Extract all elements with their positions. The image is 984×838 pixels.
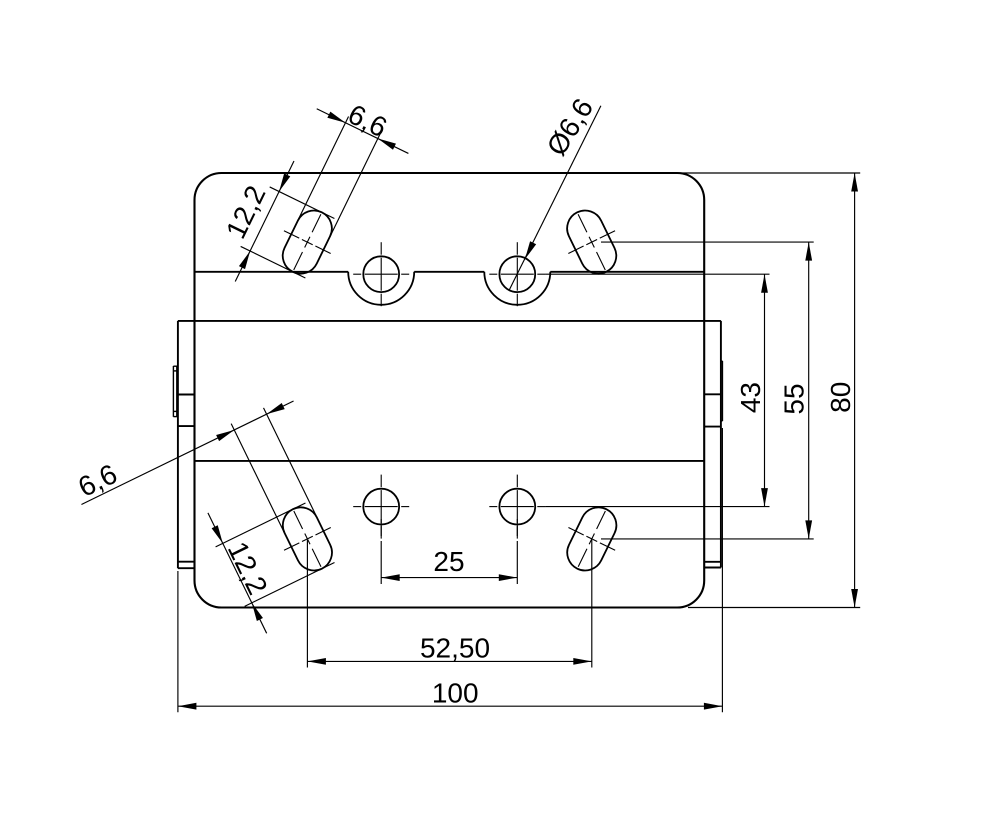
svg-text:80: 80 [825,382,856,413]
svg-text:25: 25 [433,546,464,577]
left side tab [178,321,195,568]
dimension 6,6 top-left slot width [269,84,420,251]
slot top-left (6.6 x 12.2 obround) [269,201,345,283]
dimension 25 (holes) [381,541,517,584]
dimension 80 (overall height) [678,173,860,608]
part outline (rounded rectangle plate) [195,173,705,608]
section line [178,320,721,322]
dimension 6,6 bottom-left slot width [68,374,344,608]
right tab hook detail [721,361,723,421]
hole bottom-left [353,475,409,539]
slot bottom-left (6.6 x 12.2 obround) [270,498,346,580]
svg-text:100: 100 [432,678,479,709]
svg-text:52,50: 52,50 [420,633,490,664]
svg-text:55: 55 [779,383,810,414]
left tab hook detail [173,366,178,417]
leader diameter 6,6 to top-right hole [509,93,601,290]
slot bottom-right (6.6 x 12.2 obround) [554,498,630,580]
dimension 52,50 (slots) [307,540,591,668]
right side tab [704,321,721,568]
hole top-left [353,242,409,306]
svg-text:43: 43 [735,382,766,413]
dimension 43 (hole rows) [545,274,769,506]
hole top-right [489,242,545,306]
dimension 12,2 top-left slot length [202,145,349,308]
middle line [195,460,705,462]
bottom hole centerline extensions [381,519,517,536]
dimension 55 (slot rows) [601,242,814,539]
dimension 12,2 bottom-left slot length [201,473,350,637]
bend line with relief notches [195,272,705,305]
hole bottom-right [489,475,545,539]
slot top-right (6.6 x 12.2 obround) [554,201,630,283]
dimension 100 (overall width) [178,428,723,712]
